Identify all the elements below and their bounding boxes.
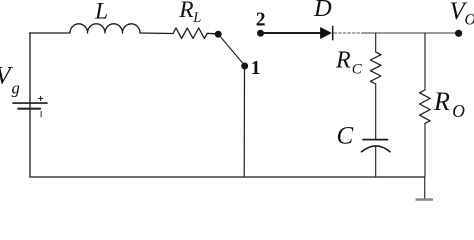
svg-text:L: L <box>94 0 108 24</box>
inductor L <box>70 24 140 33</box>
wire capacitor to bottom rail <box>375 146 377 177</box>
svg-text:O: O <box>465 11 474 28</box>
node 1 <box>241 63 248 70</box>
source V_g battery bottom plate <box>18 108 40 110</box>
wire node 2 to diode <box>264 32 321 34</box>
wire R_C to capacitor <box>375 84 377 140</box>
wire branch to R_C <box>375 33 377 52</box>
wire diode to output (scan-faded segment) <box>334 32 362 34</box>
wire left rail lower <box>29 104 31 177</box>
label R_O <box>433 87 465 121</box>
label V_O <box>450 0 474 28</box>
node 2 <box>257 30 264 37</box>
resistor R_O <box>420 90 431 124</box>
svg-text:R: R <box>178 0 193 23</box>
label V_g <box>0 61 20 98</box>
svg-text:R: R <box>433 87 450 116</box>
svg-text:O: O <box>452 101 465 121</box>
label R_L <box>178 0 201 26</box>
wire bottom rail <box>30 176 425 178</box>
diode D <box>321 28 332 39</box>
wire to output node <box>362 32 455 34</box>
svg-text:D: D <box>313 0 332 22</box>
switch blade <box>221 37 243 63</box>
diode D cathode bar <box>332 26 334 39</box>
wire to ground <box>424 177 426 200</box>
wire left rail <box>29 33 31 102</box>
wire node 1 down <box>243 70 245 178</box>
svg-text:2: 2 <box>256 9 266 30</box>
capacitor C curved plate <box>362 146 391 152</box>
wire R_O to bottom rail <box>424 124 426 178</box>
svg-text:g: g <box>12 79 20 98</box>
svg-text:C: C <box>337 123 354 150</box>
svg-text:L: L <box>192 10 201 26</box>
wire inductor to R_L <box>140 32 173 35</box>
switch pole node <box>215 31 222 38</box>
battery plus sign <box>39 96 43 100</box>
source V_g battery top plate <box>13 102 47 104</box>
ground <box>416 198 434 201</box>
output node V_O <box>455 30 462 37</box>
wire R_L to switch pole <box>207 32 215 35</box>
svg-text:R: R <box>335 48 351 74</box>
resistor R_L <box>173 28 207 38</box>
battery minus tick <box>40 112 42 117</box>
svg-text:C: C <box>352 61 363 77</box>
wire branch to R_O <box>424 33 426 90</box>
wire top from source to inductor <box>29 32 70 34</box>
capacitor C top plate <box>363 139 388 141</box>
svg-text:1: 1 <box>251 58 261 79</box>
resistor R_C <box>370 52 381 84</box>
label R_C <box>335 48 363 78</box>
